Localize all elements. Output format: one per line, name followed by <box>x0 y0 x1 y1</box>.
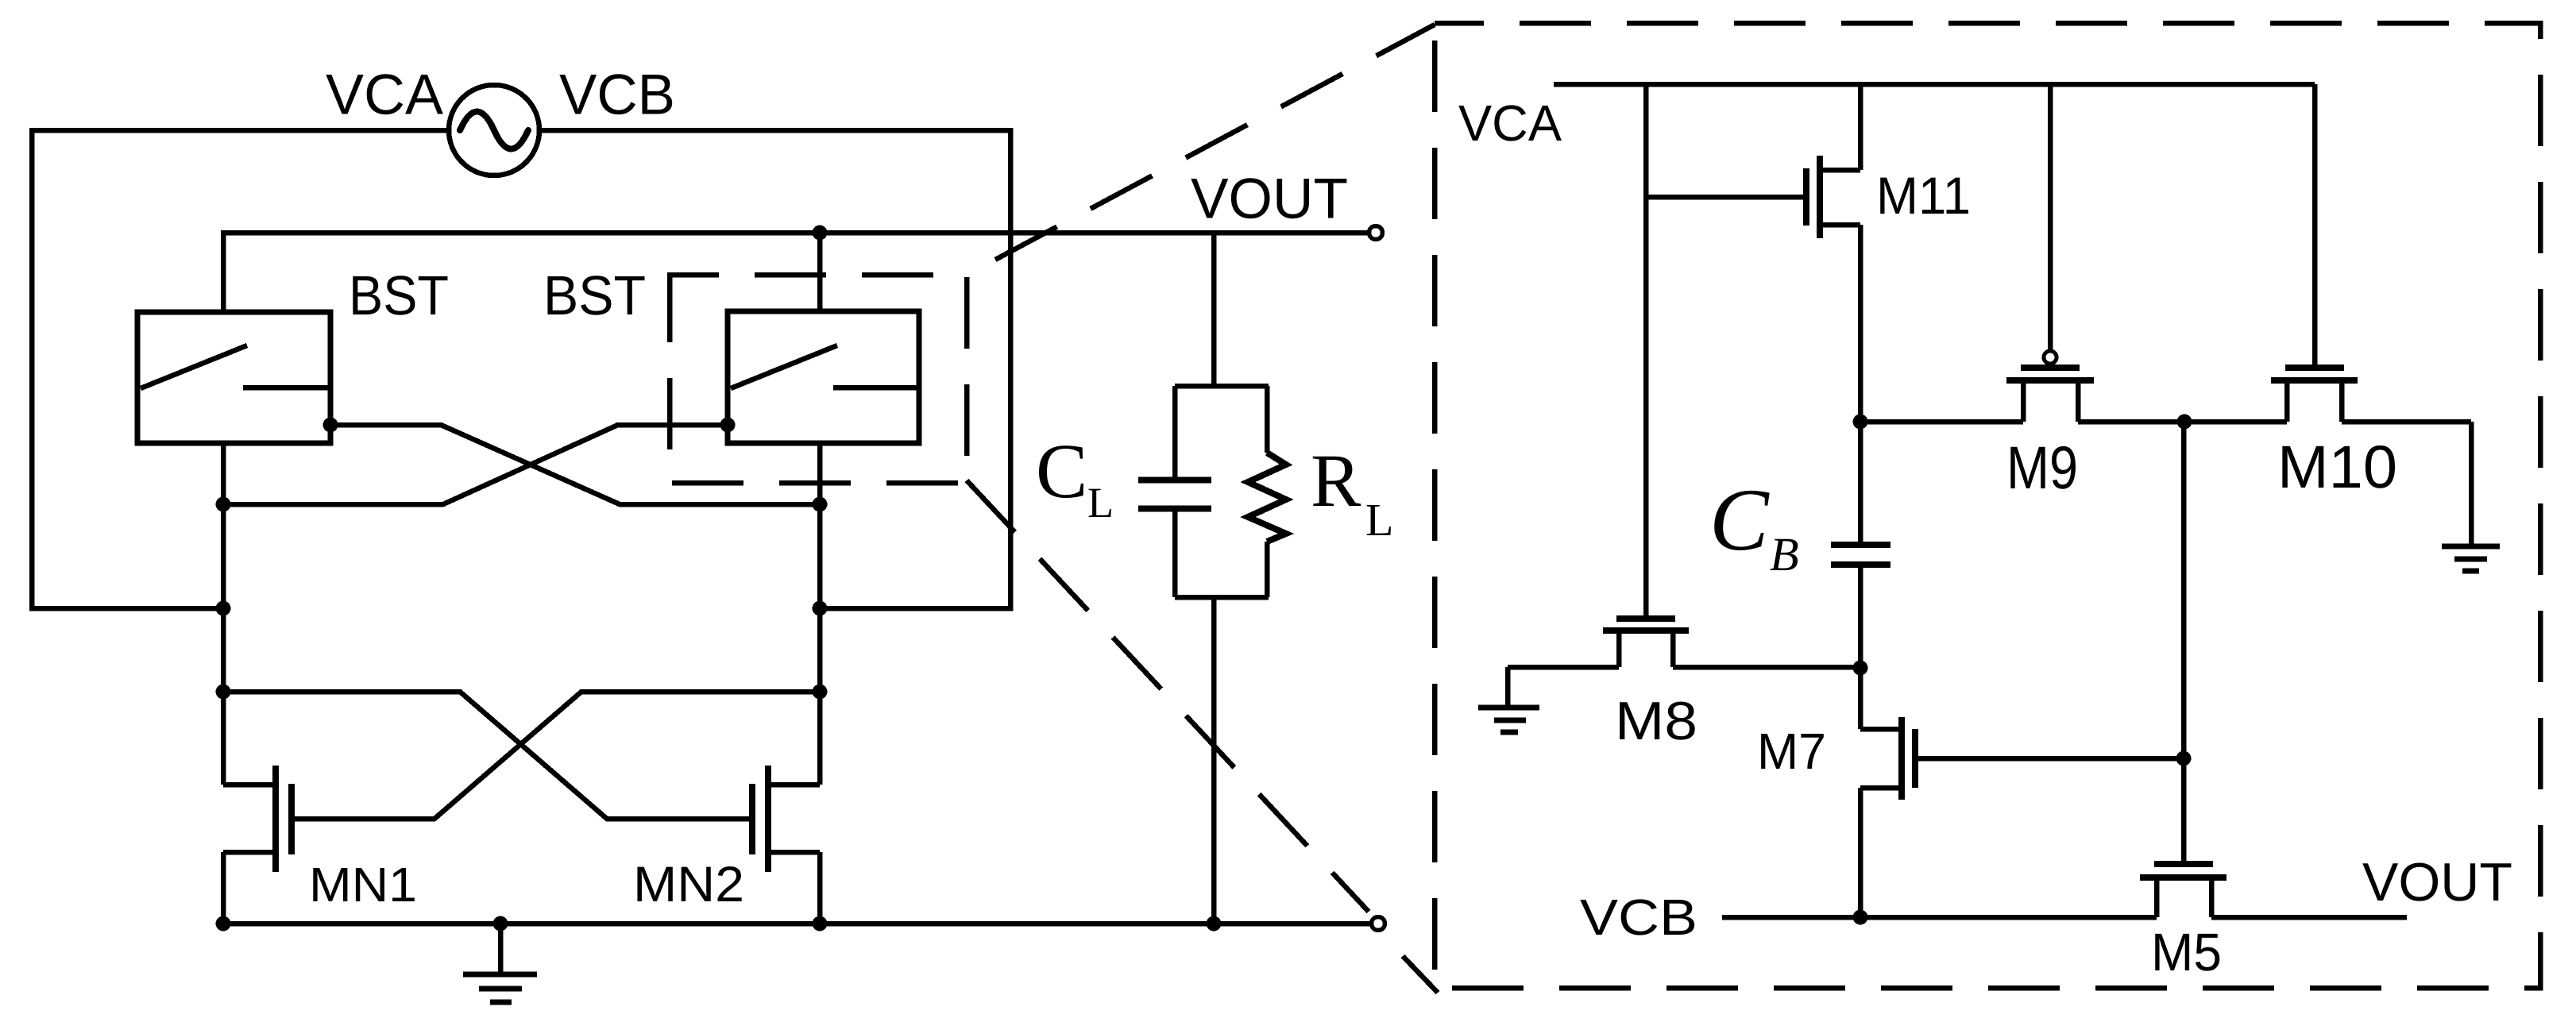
svg-text:M11: M11 <box>1876 166 1971 225</box>
resistor RL <box>1248 386 1286 597</box>
junction node B / cross wire <box>813 497 828 512</box>
svg-text:L: L <box>1365 494 1393 546</box>
wire VCA drop to M8/M11 gates <box>1643 84 1649 615</box>
label CB <box>1709 471 1799 580</box>
svg-text:M7: M7 <box>1757 723 1826 780</box>
node B bus (right vertical) <box>817 233 823 785</box>
transistor M9 <box>2006 84 2094 380</box>
svg-text:VCA: VCA <box>1458 94 1562 152</box>
wire ground rail (bottom) <box>223 921 1370 927</box>
label M8 <box>1615 691 1697 751</box>
junction center node <box>2177 415 2192 430</box>
transistor M5 <box>2140 864 2226 917</box>
label M10 <box>2277 434 2397 501</box>
wire load top bar <box>1175 384 1269 389</box>
junction node B / gate cross wire <box>813 685 828 700</box>
wire node to M9 <box>1860 380 2023 422</box>
node A bus (left vertical) <box>221 230 226 785</box>
label M5 <box>2151 923 2222 982</box>
wire VCB rail (panel) <box>1722 915 2407 920</box>
ground symbol (main) <box>463 924 537 1002</box>
AC source V1 <box>449 85 539 175</box>
label VCA <box>326 64 443 127</box>
label BST (left block) <box>349 264 449 326</box>
dashed detail box around BST2 <box>670 275 967 483</box>
transistor M7 <box>1860 668 2184 917</box>
label VCB <box>559 64 675 127</box>
bootstrap block BST2 <box>728 311 919 443</box>
junction BST2 output <box>720 418 736 433</box>
junction rail / ground tap <box>493 916 508 931</box>
svg-text:VCA: VCA <box>326 64 443 127</box>
junction rail / load branch <box>1207 916 1222 931</box>
svg-text:M5: M5 <box>2151 923 2222 982</box>
junction node A / VCA feed <box>216 601 231 616</box>
wire M10 to ground branch <box>2342 380 2471 545</box>
capacitor CB <box>1831 545 1890 668</box>
magnifier dashed diagonal (upper) <box>995 25 1435 260</box>
label VCB (panel) <box>1580 889 1697 946</box>
junction node B / VCB feed <box>813 601 828 616</box>
dashed magnified panel <box>1435 23 2540 988</box>
svg-text:L: L <box>1087 479 1114 526</box>
svg-text:VCB: VCB <box>559 64 675 127</box>
svg-text:M9: M9 <box>2006 434 2078 502</box>
label VCA (panel) <box>1458 94 1562 152</box>
junction node A / cross wire <box>216 497 231 512</box>
svg-text:MN1: MN1 <box>309 858 417 912</box>
label M7 <box>1757 723 1826 780</box>
terminal rail end (open circle) <box>1372 917 1385 931</box>
svg-text:VOUT: VOUT <box>2362 852 2512 912</box>
wire center node to M10 <box>2184 380 2287 422</box>
magnifier dashed diagonal (lower) <box>967 480 1438 993</box>
svg-text:VOUT: VOUT <box>1191 168 1348 231</box>
bootstrap block BST1 <box>137 312 330 443</box>
capacitor CL <box>1138 386 1211 597</box>
wire M9 to center node <box>2078 380 2184 422</box>
wire M11 source / CB top <box>1858 225 1863 542</box>
svg-text:BST: BST <box>349 264 449 326</box>
svg-text:R: R <box>1311 438 1361 523</box>
ground symbol (under M10) <box>2442 546 2500 571</box>
svg-text:C: C <box>1709 471 1770 569</box>
label M9 <box>2006 434 2078 502</box>
junction node A / gate cross wire <box>216 685 231 700</box>
label CL <box>1036 429 1114 526</box>
junction rail / node A <box>216 916 231 931</box>
svg-text:MN2: MN2 <box>633 857 744 912</box>
transistor M11 <box>1646 84 1860 238</box>
wire VOUT output line <box>223 230 1368 236</box>
junction VCB / M7 source <box>1853 910 1868 925</box>
junction BST1 output <box>323 418 338 433</box>
svg-text:BST: BST <box>543 264 646 326</box>
wire load to rail <box>1211 597 1217 924</box>
label MN1 <box>309 858 417 912</box>
junction M11 source node <box>1853 415 1868 430</box>
wire VCB feed (top-right loop) <box>539 130 1010 608</box>
svg-text:C: C <box>1036 429 1087 515</box>
wire VOUT to load <box>1211 233 1217 386</box>
wire node B to MN1 gate (cross) <box>292 692 820 819</box>
junction rail / node B <box>813 916 828 931</box>
transistor MN1 <box>223 766 292 924</box>
transistor MN2 <box>752 766 820 924</box>
label VOUT <box>1191 168 1348 231</box>
label M11 <box>1876 166 1971 225</box>
wire VCA rail <box>1554 82 2315 87</box>
label BST (right block) <box>543 264 646 326</box>
svg-text:M10: M10 <box>2277 434 2397 501</box>
wire VCA feed (top-left loop) <box>32 130 450 608</box>
svg-text:M8: M8 <box>1615 691 1697 751</box>
junction node B / VOUT line <box>813 226 828 241</box>
wire center node to M5 gate <box>2181 422 2187 861</box>
junction M8 drain / CB bottom <box>1853 661 1868 676</box>
label RL <box>1311 438 1393 546</box>
wire BST1 output to node B (cross) <box>330 425 820 504</box>
junction M7 gate / M5 gate <box>2176 751 2192 766</box>
svg-text:VCB: VCB <box>1580 889 1697 946</box>
wire load bottom bar <box>1175 595 1269 600</box>
ground symbol (M8 source) <box>1478 708 1539 732</box>
terminal VOUT (open circle) <box>1369 226 1383 240</box>
svg-text:B: B <box>1770 528 1799 580</box>
transistor M8 <box>1508 619 1860 706</box>
label MN2 <box>633 857 744 912</box>
transistor M10 <box>2271 84 2358 380</box>
wire BST2 output to node A (cross) <box>223 425 728 504</box>
label VOUT (panel) <box>2362 852 2512 912</box>
wire node A to MN2 gate (cross) <box>223 692 752 819</box>
